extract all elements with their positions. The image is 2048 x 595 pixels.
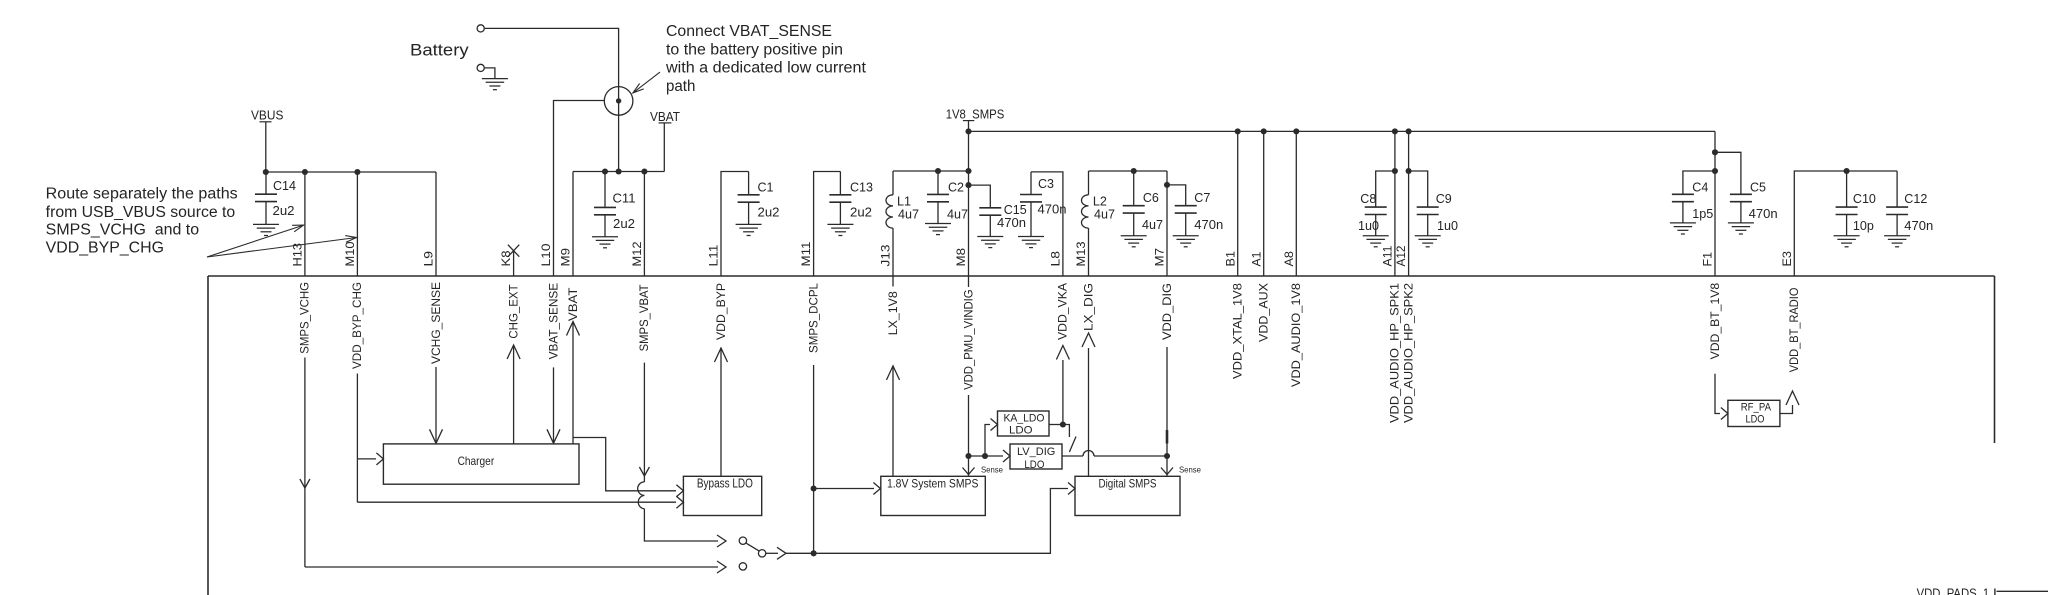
svg-text:CHG_EXT: CHG_EXT <box>508 284 520 338</box>
pin number L9 <box>424 251 436 267</box>
net name SMPS_VBAT <box>639 284 651 351</box>
svg-text:470n: 470n <box>1904 218 1933 233</box>
wire VINDIG to LV_DIG LDO <box>969 453 1004 459</box>
label C9 <box>1436 191 1452 206</box>
svg-text:2u2: 2u2 <box>758 205 780 220</box>
svg-text:470n: 470n <box>997 215 1026 230</box>
net name VDD_BT_RADIO <box>1789 288 1801 373</box>
wire pin M12 <box>643 172 645 277</box>
pin number M11 <box>801 242 813 267</box>
value C5 470n <box>1749 206 1778 221</box>
capacitor C7 branch wire <box>1167 185 1186 206</box>
net name VBAT_SENSE <box>548 282 560 359</box>
LV_DIG text <box>1017 446 1055 471</box>
svg-text:470n: 470n <box>1038 202 1067 217</box>
note: route separately annotation <box>46 186 238 257</box>
svg-text:L8: L8 <box>1051 251 1063 267</box>
label C1 <box>758 180 774 195</box>
RF_PA LDO text <box>1741 402 1772 426</box>
svg-text:VDD_AUDIO_HP_SPK1: VDD_AUDIO_HP_SPK1 <box>1390 283 1402 423</box>
sense label digital SMPS <box>1179 466 1202 475</box>
wire SMPS_VBAT down <box>639 363 649 482</box>
label C6 <box>1143 190 1159 205</box>
svg-text:M13: M13 <box>1076 242 1088 267</box>
pin number J13 <box>881 245 893 267</box>
arrow into KA_LDO <box>991 419 998 431</box>
svg-text:VDD_XTAL_1V8: VDD_XTAL_1V8 <box>1233 283 1245 379</box>
wire pin L11 and C1 branch <box>721 172 749 277</box>
svg-text:2u2: 2u2 <box>273 203 295 218</box>
svg-text:VDD_AUDIO_1V8: VDD_AUDIO_1V8 <box>1291 283 1303 387</box>
wire pin H13 <box>304 172 306 276</box>
svg-text:C12: C12 <box>1904 191 1927 206</box>
value C7 470n <box>1194 217 1223 232</box>
svg-text:M12: M12 <box>632 242 644 267</box>
svg-text:M11: M11 <box>801 242 813 267</box>
svg-text:VBAT_SENSE: VBAT_SENSE <box>548 282 560 359</box>
pin K8 stub wire <box>513 251 515 276</box>
wire VDD_BYP to bypass LDO <box>715 348 728 476</box>
capacitor C15 <box>977 208 1003 248</box>
pin number M13 <box>1076 242 1088 267</box>
svg-text:C10: C10 <box>1853 191 1876 206</box>
pin number M10 <box>345 242 357 267</box>
svg-text:C4: C4 <box>1692 179 1708 194</box>
svg-text:J13: J13 <box>881 245 893 267</box>
bypass LDO text <box>697 477 753 491</box>
label C4 <box>1692 179 1708 194</box>
capacitor C2 <box>925 171 951 235</box>
inductor L1 <box>886 195 893 228</box>
svg-text:VDD_DIG: VDD_DIG <box>1162 283 1174 340</box>
value C8 1u0 <box>1358 218 1379 233</box>
inductor L2 <box>1082 195 1089 228</box>
VDD_PADS_1 partial label <box>1917 587 1990 595</box>
svg-text:VDD_PADS_1: VDD_PADS_1 <box>1917 587 1990 595</box>
wire VBAT bus <box>573 168 664 174</box>
svg-text:VCHG_SENSE: VCHG_SENSE <box>431 282 443 364</box>
wire pin M11 and C13 branch <box>814 172 841 277</box>
value C2 4u7 <box>947 207 968 222</box>
svg-text:C11: C11 <box>613 191 636 206</box>
svg-text:VDD_BT_1V8: VDD_BT_1V8 <box>1710 283 1722 360</box>
svg-text:C9: C9 <box>1436 191 1452 206</box>
label C8 <box>1360 191 1376 206</box>
svg-text:with a dedicated low current: with a dedicated low current <box>665 60 867 77</box>
digital SMPS text <box>1099 476 1157 490</box>
svg-text:C7: C7 <box>1194 190 1210 205</box>
svg-text:Battery: Battery <box>410 41 469 60</box>
wire pin M10 <box>356 172 358 276</box>
note: connect VBAT_SENSE annotation <box>665 23 867 95</box>
digital SMPS box <box>1075 476 1180 515</box>
label C13 <box>850 180 873 195</box>
wire junction circle to VBAT bus <box>616 168 622 174</box>
label L1 <box>897 194 911 209</box>
wire 1V8 cluster sub-rail <box>893 168 972 174</box>
net label 1V8_SMPS <box>946 107 1005 132</box>
net label VBAT <box>650 109 680 172</box>
capacitor C8 <box>1363 207 1389 247</box>
svg-text:10p: 10p <box>1853 218 1874 233</box>
svg-text:Sense: Sense <box>981 466 1004 475</box>
arrow into digital SMPS left <box>1068 483 1075 495</box>
net name VCHG_SENSE <box>431 282 443 364</box>
svg-text:LDO: LDO <box>1024 459 1044 471</box>
wire pin L8 and C3 branch <box>1031 172 1063 276</box>
wire LX_1V8 to 1.8V SMPS <box>887 366 900 476</box>
svg-text:VDD_BT_RADIO: VDD_BT_RADIO <box>1789 288 1801 373</box>
value C6 4u7 <box>1142 217 1163 232</box>
net name VDD_AUDIO_1V8 <box>1291 283 1303 387</box>
label C3 <box>1038 176 1054 191</box>
wire VDD_VKA arrow <box>1056 346 1069 360</box>
wire battery+ to VBAT junction <box>484 28 618 171</box>
value C12 470n <box>1904 218 1933 233</box>
capacitor C10 <box>1834 171 1860 247</box>
wire VDD_BYP_CHG down <box>357 374 676 503</box>
pin number L8 <box>1051 251 1063 267</box>
svg-text:LDO: LDO <box>1009 425 1033 437</box>
svg-text:Charger: Charger <box>458 455 495 468</box>
svg-text:L9: L9 <box>424 251 436 267</box>
svg-text:SMPS_DCPL: SMPS_DCPL <box>808 282 820 353</box>
wire VDD_DIG down <box>1161 347 1173 476</box>
capacitor C5 branch wire <box>1715 152 1741 194</box>
pin number H13 <box>293 243 305 267</box>
capacitor C9 branch wire <box>1409 171 1428 207</box>
pin number L10 <box>541 244 553 267</box>
net name SMPS_VCHG <box>300 282 312 354</box>
wire pin M7 <box>1164 171 1170 276</box>
wire pin A12 <box>1406 131 1412 276</box>
pin number M12 <box>632 242 644 267</box>
bypass coil <box>638 482 645 509</box>
svg-text:VDD_BYP: VDD_BYP <box>716 283 728 340</box>
value L2 4u7 <box>1094 207 1115 222</box>
wire VDD_BYP_CHG charger branch <box>357 458 376 460</box>
svg-text:4u7: 4u7 <box>1094 207 1115 222</box>
net name VDD_AUDIO_HP_SPK1 <box>1390 283 1402 423</box>
value C10 10p <box>1853 218 1874 233</box>
wire 1V8_SMPS rail <box>965 128 1715 134</box>
pin number L11 <box>709 245 721 267</box>
svg-text:SMPS_VCHG: SMPS_VCHG <box>300 282 312 354</box>
note arrow to junction circle <box>633 72 660 93</box>
arrow into bypass LDO lower input <box>676 496 683 508</box>
svg-text:LV_DIG: LV_DIG <box>1017 446 1055 458</box>
svg-text:H13: H13 <box>293 243 305 267</box>
svg-text:Digital SMPS: Digital SMPS <box>1099 476 1157 490</box>
value L1 4u7 <box>898 207 919 222</box>
no-connect X at K8 <box>508 245 519 257</box>
pin number M9 <box>561 248 573 267</box>
RF_PA LDO box <box>1728 400 1780 426</box>
charger text <box>458 455 495 468</box>
pin number E3 <box>1782 251 1794 267</box>
net name VDD_PMU_VINDIG <box>963 289 975 390</box>
ground (battery) <box>482 79 508 90</box>
pin number A1 <box>1251 252 1263 267</box>
svg-text:KA_LDO: KA_LDO <box>1004 413 1045 425</box>
net name VDD_BT_1V8 <box>1710 283 1722 360</box>
value C14 2u2 <box>273 203 295 218</box>
pin number M8 <box>956 248 968 267</box>
pin number F1 <box>1703 252 1715 267</box>
wire VBAT to bypass LDO upper input <box>573 438 676 491</box>
IC block U1 outline (top edge, left edge, right edge) <box>208 276 1995 595</box>
capacitor C1 <box>736 172 762 236</box>
svg-text:SMPS_VBAT: SMPS_VBAT <box>639 284 651 351</box>
net name VDD_VKA <box>1058 283 1070 340</box>
arrow into bypass LDO upper input <box>676 485 683 497</box>
net name LX_DIG <box>1083 283 1095 331</box>
svg-text:1p5: 1p5 <box>1692 206 1713 221</box>
switch throw B arrow and contact <box>717 561 747 573</box>
switch stub from KA_LDO output <box>1063 425 1070 438</box>
wire VBAT to charger <box>567 322 580 444</box>
svg-text:4u7: 4u7 <box>1142 217 1163 232</box>
arrow into RF_PA LDO <box>1721 408 1728 420</box>
wire pin F1 <box>1712 131 1718 276</box>
svg-text:E3: E3 <box>1782 251 1794 267</box>
KA_LDO box <box>998 411 1050 436</box>
wire pin M9 <box>572 172 574 277</box>
wire VDD_BT_1V8 to RF_PA LDO <box>1715 374 1720 414</box>
pin number B1 <box>1225 251 1237 267</box>
capacitor C6 <box>1121 171 1147 247</box>
wire VCHG_SENSE to charger <box>430 367 443 443</box>
LV_DIG box <box>1010 444 1062 469</box>
svg-text:1u0: 1u0 <box>1358 218 1379 233</box>
label C14 <box>273 178 296 193</box>
value C3 470n <box>1038 202 1067 217</box>
wire switch common to digital SMPS <box>766 489 1068 560</box>
svg-text:Route separately the paths: Route separately the paths <box>46 186 238 203</box>
switch blade <box>746 543 759 551</box>
label C11 <box>613 191 636 206</box>
wire VBAT_SENSE to charger <box>547 367 560 443</box>
net name SMPS_DCPL <box>808 282 820 353</box>
svg-text:A11: A11 <box>1383 246 1395 267</box>
wire pin A11 <box>1392 131 1398 276</box>
value C11 2u2 <box>613 216 635 231</box>
wire DIG cluster sub-rail <box>1089 168 1168 174</box>
battery negative terminal <box>477 64 484 71</box>
svg-text:A8: A8 <box>1284 251 1296 267</box>
arrow into LV_DIG LDO <box>1003 450 1010 462</box>
pin number A11 <box>1383 246 1395 267</box>
svg-text:LX_1V8: LX_1V8 <box>888 291 900 335</box>
wire RF_PA output to VDD_BT_RADIO <box>1780 391 1799 414</box>
wire pin A1 <box>1263 131 1265 276</box>
svg-text:C2: C2 <box>948 179 964 194</box>
pin number A8 <box>1284 251 1296 267</box>
svg-text:2u2: 2u2 <box>850 205 872 220</box>
capacitor C8 branch wire <box>1376 171 1395 207</box>
value C1 2u2 <box>758 205 780 220</box>
wire SMPS_VCHG to switch <box>300 358 718 568</box>
wire SMPS_DCPL down <box>811 365 817 553</box>
pin number M7 <box>1155 248 1167 267</box>
svg-text:RF_PA: RF_PA <box>1741 402 1772 414</box>
capacitor C4 branch wire <box>1683 171 1715 194</box>
wire pin M8 <box>965 131 971 276</box>
svg-text:from USB_VBUS source to: from USB_VBUS source to <box>46 204 236 221</box>
svg-text:4u7: 4u7 <box>947 207 968 222</box>
net name LX_1V8 <box>888 291 900 335</box>
svg-text:C6: C6 <box>1143 190 1159 205</box>
wire LV_DIG output with hop <box>1062 451 1170 460</box>
KA_LDO text <box>1004 413 1045 437</box>
switch blade KA/LV <box>1069 437 1076 453</box>
svg-text:Bypass LDO: Bypass LDO <box>697 477 753 491</box>
svg-text:C5: C5 <box>1750 179 1766 194</box>
svg-text:4u7: 4u7 <box>898 207 919 222</box>
value C13 2u2 <box>850 205 872 220</box>
capacitor C9 <box>1415 207 1441 247</box>
wire pin M13 upper <box>1088 171 1090 195</box>
svg-text:LX_DIG: LX_DIG <box>1083 283 1095 331</box>
wire KA_LDO output to VDD_VKA <box>1049 360 1066 428</box>
wire VBUS bus <box>263 169 436 175</box>
svg-text:C14: C14 <box>273 178 296 193</box>
next sheet pin bracket <box>1995 589 2048 595</box>
capacitor C3 <box>1018 172 1044 248</box>
note arrow to SMPS_VCHG wire <box>207 225 304 257</box>
svg-text:470n: 470n <box>1194 217 1223 232</box>
VBAT junction circle <box>604 87 633 116</box>
svg-text:B1: B1 <box>1225 251 1237 267</box>
svg-text:path: path <box>666 78 695 95</box>
1.8V system SMPS text <box>887 476 978 490</box>
value C9 1u0 <box>1437 218 1458 233</box>
1.8V system SMPS box <box>881 476 986 515</box>
svg-text:Sense: Sense <box>1179 466 1202 475</box>
svg-text:VDD_VKA: VDD_VKA <box>1058 283 1070 340</box>
svg-text:M8: M8 <box>956 248 968 267</box>
switch common contact <box>758 550 765 557</box>
svg-text:2u2: 2u2 <box>613 216 635 231</box>
svg-text:M10: M10 <box>345 242 357 267</box>
svg-text:Connect VBAT_SENSE: Connect VBAT_SENSE <box>666 23 832 40</box>
net label VBUS <box>251 108 284 173</box>
svg-text:VBAT: VBAT <box>650 109 680 124</box>
capacitor C5 <box>1728 194 1754 234</box>
svg-text:to the battery positive pin: to the battery positive pin <box>666 41 843 58</box>
net name VDD_AUDIO_HP_SPK2 <box>1403 283 1415 423</box>
switch throw A arrow and contact <box>717 535 747 547</box>
pin number K8 <box>501 251 513 267</box>
value C4 1p5 <box>1692 206 1713 221</box>
pin J13 inner stub <box>892 276 894 287</box>
bypass LDO box <box>683 476 761 515</box>
svg-text:1.8V System SMPS: 1.8V System SMPS <box>887 476 978 490</box>
svg-text:C13: C13 <box>850 180 873 195</box>
net name VDD_AUX <box>1259 283 1271 342</box>
wire LX_DIG to digital SMPS <box>1082 333 1095 476</box>
battery positive terminal <box>477 25 484 32</box>
svg-text:VDD_AUX: VDD_AUX <box>1259 283 1271 342</box>
note arrow to VDD_BYP_CHG wire <box>207 236 357 257</box>
wire battery- to ground <box>484 68 495 79</box>
label C15 <box>1004 202 1027 217</box>
svg-text:VDD_BYP_CHG: VDD_BYP_CHG <box>352 282 364 369</box>
label C10 <box>1853 191 1876 206</box>
net name VDD_BYP <box>716 283 728 340</box>
wire pin L9 <box>435 172 437 276</box>
wire pin J13 upper <box>892 171 894 195</box>
wire CHG_EXT from charger <box>507 345 520 444</box>
svg-text:M9: M9 <box>561 248 573 267</box>
svg-text:LDO: LDO <box>1746 414 1765 426</box>
capacitor C4 <box>1670 194 1696 234</box>
svg-text:L10: L10 <box>541 244 553 267</box>
wire SMPS_DCPL to 1.8V SMPS <box>814 488 874 490</box>
svg-text:A1: A1 <box>1251 252 1263 267</box>
pin number A12 <box>1396 246 1408 267</box>
capacitor C7 <box>1173 206 1199 247</box>
svg-text:C3: C3 <box>1038 176 1054 191</box>
svg-text:F1: F1 <box>1703 252 1715 267</box>
wire VBAT_SENSE from junction circle <box>554 101 605 277</box>
wire pin A8 <box>1295 131 1297 276</box>
arrow into charger left <box>376 453 383 465</box>
capacitor C13 <box>827 172 853 236</box>
svg-text:1u0: 1u0 <box>1437 218 1458 233</box>
svg-text:VBAT: VBAT <box>568 288 580 322</box>
net name VDD_XTAL_1V8 <box>1233 283 1245 379</box>
svg-text:L11: L11 <box>709 245 721 267</box>
capacitor C12 <box>1884 171 1910 247</box>
label C12 <box>1904 191 1927 206</box>
wire pin E3 and C10/C12 branch <box>1794 168 1897 276</box>
wire SMPS_VBAT to switch <box>644 509 718 541</box>
svg-text:470n: 470n <box>1749 206 1778 221</box>
wire VDD_PMU_VINDIG down <box>963 395 975 476</box>
net name VDD_DIG <box>1162 283 1174 340</box>
label C5 <box>1750 179 1766 194</box>
capacitor C11 <box>592 172 618 248</box>
label C2 <box>948 179 964 194</box>
wire pin J13 lower <box>892 228 894 276</box>
svg-text:C1: C1 <box>758 180 774 195</box>
net name VDD_BYP_CHG <box>352 282 364 369</box>
wire branch to KA_LDO <box>985 425 990 457</box>
svg-text:SMPS_VCHG and to: SMPS_VCHG and to <box>46 222 199 239</box>
net name CHG_EXT <box>508 284 520 338</box>
svg-text:C8: C8 <box>1360 191 1376 206</box>
sense label 1.8V SMPS <box>981 466 1004 475</box>
svg-text:M7: M7 <box>1155 248 1167 267</box>
pin M8 inner stub <box>968 276 970 287</box>
capacitor C14 <box>253 172 279 236</box>
capacitor C15 branch wire <box>969 185 991 208</box>
svg-text:VDD_PMU_VINDIG: VDD_PMU_VINDIG <box>963 289 975 390</box>
battery label <box>410 41 469 60</box>
svg-text:A12: A12 <box>1396 246 1408 267</box>
charger box <box>383 444 579 484</box>
svg-text:VDD_AUDIO_HP_SPK2: VDD_AUDIO_HP_SPK2 <box>1403 283 1415 423</box>
wire pin B1 <box>1237 131 1239 276</box>
arrow into 1.8V SMPS left <box>873 483 880 495</box>
value C15 470n <box>997 215 1026 230</box>
net name VBAT <box>568 288 580 322</box>
wire pin M13 lower <box>1088 228 1090 276</box>
svg-text:1V8_SMPS: 1V8_SMPS <box>946 107 1005 122</box>
svg-text:VDD_BYP_CHG: VDD_BYP_CHG <box>46 239 164 256</box>
label C7 <box>1194 190 1210 205</box>
